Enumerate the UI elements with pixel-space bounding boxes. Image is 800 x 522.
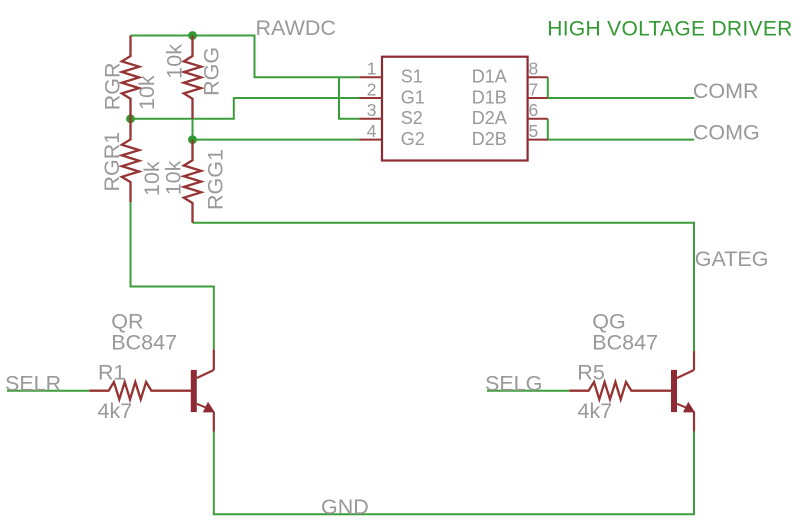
svg-text:10k: 10k bbox=[135, 75, 159, 110]
svg-text:R1: R1 bbox=[98, 360, 125, 384]
wire G2 net bbox=[193, 139, 360, 141]
svg-text:4: 4 bbox=[367, 121, 377, 141]
svg-text:G1: G1 bbox=[401, 87, 425, 107]
pin 2 stub G1 bbox=[360, 97, 383, 99]
wire RGG bottom link bbox=[192, 119, 194, 140]
wire COMG bbox=[548, 119, 694, 140]
resistor RGG1 bbox=[184, 140, 201, 223]
svg-text:D1B: D1B bbox=[472, 87, 507, 107]
transistor QR bbox=[191, 349, 215, 431]
wire RGR1 to QR collector bbox=[131, 202, 214, 349]
svg-text:RAWDC: RAWDC bbox=[256, 16, 336, 40]
svg-text:4k7: 4k7 bbox=[98, 399, 133, 423]
resistor RGG bbox=[184, 36, 201, 119]
svg-text:G2: G2 bbox=[401, 129, 425, 149]
resistor RGR1 bbox=[122, 119, 139, 202]
wire G1 net bbox=[131, 98, 360, 119]
svg-text:6: 6 bbox=[529, 100, 539, 120]
svg-text:1: 1 bbox=[367, 59, 377, 79]
resistor R5 bbox=[569, 382, 672, 399]
svg-text:BC847: BC847 bbox=[592, 331, 658, 355]
junction dot RAWDC at RGG top bbox=[188, 31, 197, 40]
svg-text:S1: S1 bbox=[401, 67, 423, 87]
wire S1-S2 vertical link bbox=[339, 77, 360, 119]
pin 5 stub D2B bbox=[528, 139, 548, 141]
svg-text:3: 3 bbox=[367, 100, 377, 120]
IC box U1 bbox=[382, 57, 528, 161]
svg-text:RGG: RGG bbox=[200, 47, 224, 96]
svg-text:RGR: RGR bbox=[100, 63, 124, 111]
resistor RGR bbox=[122, 36, 139, 119]
pin 4 stub G2 bbox=[360, 139, 383, 141]
wire GATEG bbox=[193, 223, 695, 351]
svg-text:S2: S2 bbox=[401, 108, 423, 128]
svg-text:10k: 10k bbox=[162, 44, 186, 79]
svg-text:SELR: SELR bbox=[5, 371, 61, 395]
svg-text:COMR: COMR bbox=[693, 79, 759, 103]
svg-text:8: 8 bbox=[529, 59, 539, 79]
svg-text:2: 2 bbox=[367, 79, 377, 99]
svg-text:D2B: D2B bbox=[472, 129, 507, 149]
svg-text:10k: 10k bbox=[161, 160, 185, 195]
junction dot G1 at RGR bottom bbox=[126, 114, 135, 123]
wire GND bbox=[214, 432, 694, 515]
svg-text:D2A: D2A bbox=[472, 108, 507, 128]
svg-text:4k7: 4k7 bbox=[578, 399, 613, 423]
pin 8 stub D1A bbox=[528, 76, 548, 78]
wire COMR bbox=[548, 77, 694, 98]
svg-text:R5: R5 bbox=[577, 360, 605, 384]
svg-text:HIGH VOLTAGE DRIVER: HIGH VOLTAGE DRIVER bbox=[547, 18, 792, 41]
wire RAWDC top horizontal bbox=[131, 36, 360, 78]
svg-text:RGG1: RGG1 bbox=[204, 149, 228, 210]
resistor R1 bbox=[89, 382, 191, 399]
svg-text:D1A: D1A bbox=[472, 67, 507, 87]
wire SELG bbox=[487, 390, 569, 392]
svg-text:10k: 10k bbox=[140, 161, 164, 196]
transistor QG bbox=[671, 351, 695, 432]
svg-text:GATEG: GATEG bbox=[695, 247, 769, 271]
svg-text:BC847: BC847 bbox=[111, 331, 177, 355]
svg-text:7: 7 bbox=[529, 79, 539, 99]
svg-text:SELG: SELG bbox=[485, 371, 542, 395]
junction dot G2 at RGG1 top bbox=[188, 135, 197, 144]
svg-text:5: 5 bbox=[529, 121, 539, 141]
svg-text:COMG: COMG bbox=[693, 121, 760, 145]
pin 1 stub S1 bbox=[360, 76, 383, 78]
svg-text:GND: GND bbox=[321, 495, 369, 519]
svg-text:RGR1: RGR1 bbox=[100, 132, 124, 192]
wire SELR bbox=[7, 390, 89, 392]
pin 6 stub D2A bbox=[528, 118, 548, 120]
pin 7 stub D1B bbox=[528, 97, 548, 99]
pin 3 stub S2 bbox=[360, 118, 383, 120]
